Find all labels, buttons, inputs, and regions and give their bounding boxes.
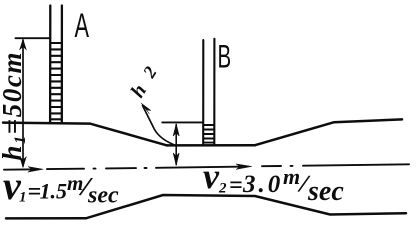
centerline: v1 flow arrow segment	[4, 168, 38, 170]
piezometer tube A right wall	[61, 6, 63, 123]
tube B liquid column hatching	[203, 125, 214, 143]
svg-text:=: =	[229, 173, 243, 199]
centerline: v2 flow arrow segment	[156, 167, 246, 168]
arrowhead h2 bottom	[173, 153, 179, 165]
svg-text:h: h	[127, 81, 152, 102]
arrowhead h2 top	[173, 124, 179, 136]
svg-text:3.0: 3.0	[242, 171, 283, 198]
leader line for h2 label	[143, 106, 175, 145]
dimension line h1	[22, 40, 24, 166]
svg-text:B: B	[218, 39, 232, 75]
centerline dot	[145, 167, 147, 169]
tube A liquid column hatching	[50, 43, 61, 119]
centerline dot	[94, 168, 96, 170]
piezometer tube B left wall	[202, 40, 204, 144]
leader arrowhead	[141, 103, 151, 113]
v2 arrowhead	[236, 164, 252, 169]
svg-text:A: A	[75, 7, 90, 45]
svg-text:sec: sec	[87, 183, 119, 209]
dimension line h2	[175, 125, 177, 165]
svg-text:2: 2	[218, 181, 227, 197]
centerline long dash	[303, 164, 409, 165]
centerline dot	[291, 165, 293, 167]
svg-text:m: m	[283, 164, 300, 189]
svg-text:sec: sec	[307, 176, 344, 207]
centerline dash	[47, 168, 84, 170]
piezometer tube B right wall	[213, 39, 215, 145]
top wall: throat section	[167, 144, 255, 147]
arrowhead h1 bottom	[20, 157, 26, 167]
centerline dash	[106, 167, 136, 169]
svg-text:1: 1	[19, 190, 27, 206]
tube B liquid level line	[162, 121, 202, 123]
label v2 = 3.0 m/sec	[203, 156, 344, 207]
centerline dash	[262, 165, 281, 167]
top wall: diverging slope and right horizontal	[255, 119, 402, 145]
bottom wall	[6, 195, 406, 218]
top wall: left horizontal, converging slope	[3, 123, 167, 146]
svg-text:2: 2	[138, 63, 160, 82]
arrowhead h1 top	[20, 39, 26, 49]
label v1 = 1.5 m/sec	[3, 163, 119, 209]
tube A liquid level tick	[16, 37, 51, 39]
svg-text:v: v	[203, 156, 220, 196]
piezometer tube A left wall	[49, 6, 52, 123]
label h2 (rotated)	[127, 63, 161, 102]
svg-text:1.5: 1.5	[40, 179, 68, 204]
svg-text:h1=50cm: h1=50cm	[0, 51, 29, 161]
v1 arrowhead	[28, 167, 43, 172]
